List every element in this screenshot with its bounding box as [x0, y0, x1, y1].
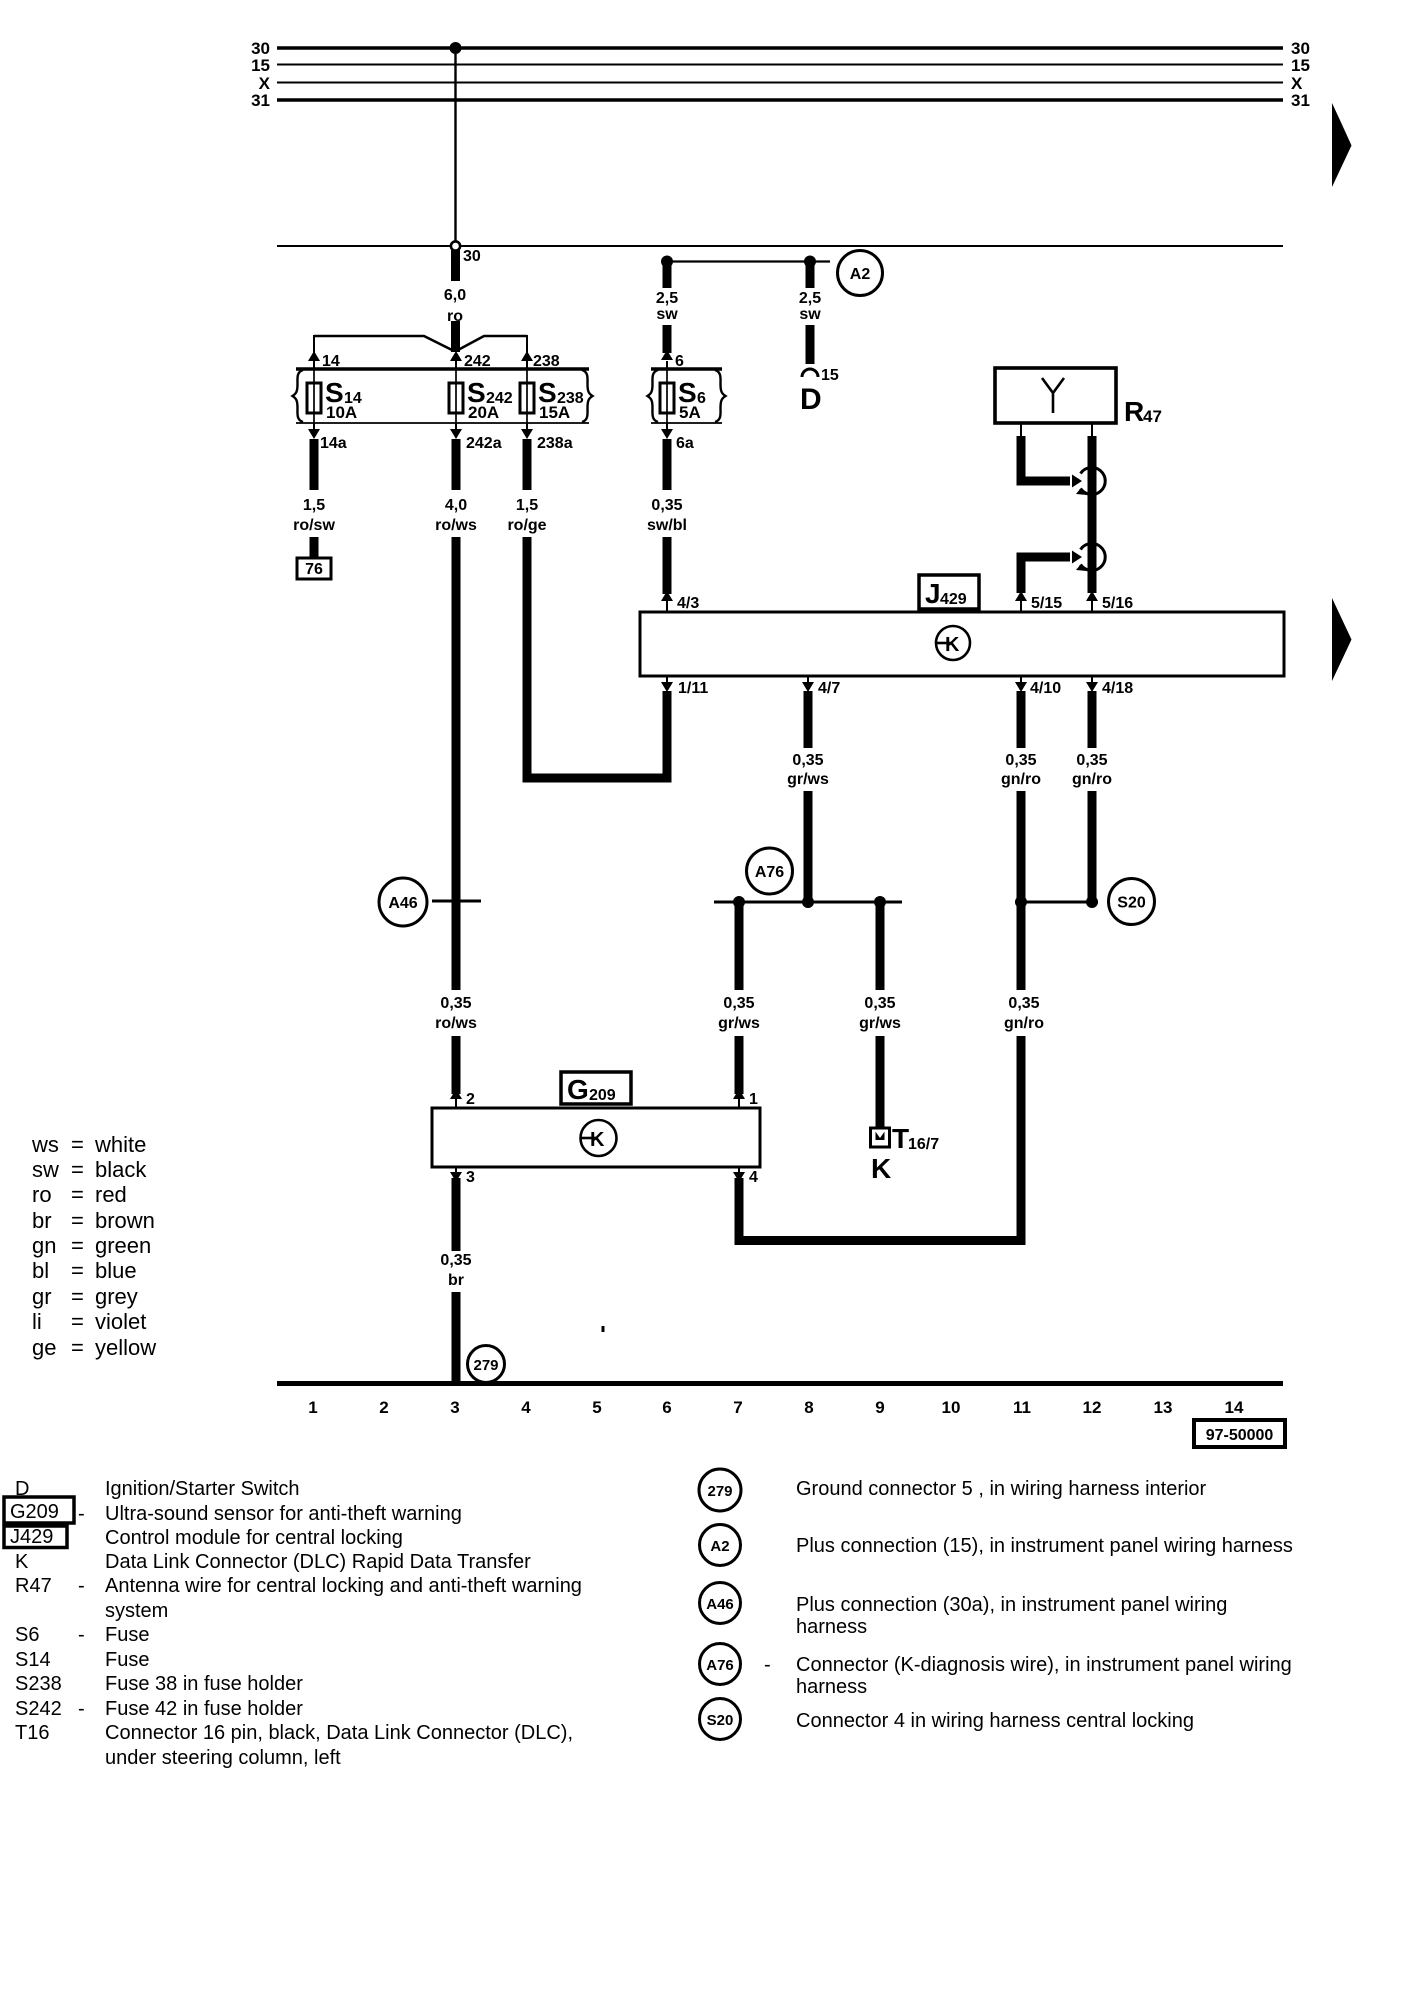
svg-text:31: 31: [251, 91, 270, 110]
svg-text:15A: 15A: [539, 403, 570, 422]
legend R47: [15, 1575, 582, 1622]
svg-text:-: -: [764, 1654, 771, 1676]
svg-text:6,0: 6,0: [444, 287, 466, 304]
svg-text:J429: J429: [10, 1526, 53, 1548]
svg-text:Fuse 38 in fuse holder: Fuse 38 in fuse holder: [105, 1673, 303, 1695]
svg-text:A76: A76: [706, 1657, 734, 1674]
svg-text:0,35: 0,35: [440, 995, 471, 1012]
svg-text:gr: gr: [32, 1284, 52, 1309]
pin 2 arrow G209: [450, 1089, 462, 1099]
svg-text:=: =: [71, 1132, 84, 1157]
svg-text:gr/ws: gr/ws: [787, 771, 829, 788]
pin 5/16 arrow: [1086, 591, 1098, 601]
svg-text:242a: 242a: [466, 435, 502, 452]
svg-text:30: 30: [463, 248, 481, 265]
svg-text:1,5: 1,5: [516, 497, 538, 514]
svg-text:2: 2: [379, 1398, 388, 1417]
wire gr/ws left lower: [735, 1036, 744, 1094]
svg-text:-: -: [78, 1624, 85, 1646]
svg-text:Fuse: Fuse: [105, 1624, 149, 1646]
wire gn/ro 4/18 lower: [1088, 791, 1097, 902]
svg-text:4,0: 4,0: [445, 497, 467, 514]
wire link 2,5 horizontal: [667, 260, 830, 262]
svg-text:S6: S6: [15, 1624, 39, 1646]
svg-text:ro/sw: ro/sw: [293, 517, 335, 534]
svg-text:ro/ws: ro/ws: [435, 1015, 477, 1032]
bus X: [277, 82, 1283, 84]
pin 4 arrow G209: [738, 1167, 740, 1172]
svg-text:4/3: 4/3: [677, 595, 699, 612]
svg-text:-: -: [78, 1698, 85, 1720]
connector A76 circle: [747, 848, 793, 894]
plus connection A46 circle: [379, 878, 427, 926]
S20 junction dot left: [1015, 896, 1027, 908]
legend S238: [15, 1673, 303, 1695]
svg-text:gn/ro: gn/ro: [1004, 1015, 1044, 1032]
wire gr/ws down from A76 left: [735, 902, 744, 990]
svg-text:A2: A2: [850, 266, 871, 283]
S20 node bar: [1015, 901, 1098, 904]
wire ro/ws long vertical: [452, 537, 461, 990]
G209 label box: [561, 1072, 631, 1104]
svg-text:=: =: [71, 1284, 84, 1309]
svg-text:0,35: 0,35: [1076, 752, 1107, 769]
svg-text:4: 4: [521, 1398, 531, 1417]
svg-text:Antenna wire for central locki: Antenna wire for central locking and ant…: [105, 1575, 582, 1597]
svg-text:Ultra-sound sensor for anti-th: Ultra-sound sensor for anti-theft warnin…: [105, 1503, 462, 1525]
svg-text:sw: sw: [799, 306, 821, 323]
wire gn/ro mid: [1017, 791, 1026, 990]
svg-text:9: 9: [875, 1398, 884, 1417]
wire gn/ro from 4/10 upper: [1017, 691, 1026, 748]
antenna symbol: [1042, 378, 1064, 413]
svg-text:-: -: [78, 1503, 85, 1525]
svg-text:Connector (K-diagnosis wire),: Connector (K-diagnosis wire), in instrum…: [796, 1654, 1292, 1676]
svg-text:0,35: 0,35: [792, 752, 823, 769]
svg-text:Plus connection (30a), in inst: Plus connection (30a), in instrument pan…: [796, 1594, 1227, 1616]
svg-text:2: 2: [466, 1091, 475, 1108]
svg-text:0,35: 0,35: [440, 1252, 471, 1269]
svg-text:S20: S20: [1117, 895, 1146, 912]
svg-text:G: G: [567, 1074, 589, 1105]
svg-text:br: br: [448, 1272, 464, 1289]
svg-text:=: =: [71, 1233, 84, 1258]
wire 1,5 ro/ge upper: [523, 439, 532, 490]
wire 1,5 ro/sw upper: [310, 439, 319, 490]
svg-text:1/11: 1/11: [678, 680, 708, 697]
svg-text:Fuse 42 in fuse holder: Fuse 42 in fuse holder: [105, 1698, 303, 1720]
twisted link lower elbow: [1021, 557, 1070, 593]
svg-text:ro: ro: [447, 308, 463, 325]
svg-text:Control module for central loc: Control module for central locking: [105, 1527, 403, 1549]
pin 238 arrow: [526, 335, 528, 353]
svg-text:D: D: [800, 383, 822, 416]
scan speck: [602, 1326, 605, 1332]
A76 junction dot left: [733, 896, 745, 908]
A46 tick across wire: [432, 900, 481, 903]
svg-text:black: black: [95, 1157, 147, 1182]
wire ro/ws lower: [452, 1036, 461, 1094]
svg-text:4: 4: [749, 1169, 758, 1186]
svg-text:12: 12: [1083, 1398, 1102, 1417]
svg-text:red: red: [95, 1182, 127, 1207]
legend circle 279: [699, 1469, 741, 1511]
pin 14a arrow: [313, 423, 315, 429]
connector T16/7 symbol: [871, 1128, 890, 1147]
junction dot right: [804, 256, 816, 268]
svg-text:31: 31: [1291, 91, 1310, 110]
pin 4/7 arrow: [807, 676, 809, 682]
svg-text:20A: 20A: [468, 403, 499, 422]
svg-text:system: system: [105, 1600, 168, 1622]
svg-text:sw/bl: sw/bl: [647, 517, 687, 534]
K symbol in J429: [936, 626, 970, 660]
pin 242a arrow: [455, 423, 457, 429]
legend circle A46: [700, 1583, 741, 1624]
svg-text:11: 11: [1013, 1398, 1031, 1417]
antenna R47 box: [995, 368, 1116, 423]
svg-text:S242: S242: [15, 1698, 62, 1720]
plus connection A2 circle: [838, 251, 883, 296]
wire sw/bl lower: [663, 537, 672, 594]
svg-text:K: K: [590, 1129, 605, 1151]
connector S20 circle: [1109, 879, 1155, 925]
svg-text:K: K: [15, 1551, 29, 1573]
svg-text:14a: 14a: [320, 435, 347, 452]
svg-text:Plus connection (15), in instr: Plus connection (15), in instrument pane…: [796, 1535, 1293, 1557]
svg-text:5/15: 5/15: [1031, 595, 1062, 612]
continuation arrow top right: [1332, 103, 1352, 187]
control module J429 box: [640, 612, 1284, 676]
fuse S242: [455, 369, 457, 423]
svg-text:209: 209: [589, 1087, 616, 1104]
svg-text:Fuse: Fuse: [105, 1649, 149, 1671]
wire split to fuses: [314, 336, 527, 350]
svg-text:3: 3: [466, 1169, 475, 1186]
colour code legend: [31, 1132, 156, 1360]
wire 2,5 sw right lower: [806, 325, 815, 364]
svg-text:Ignition/Starter Switch: Ignition/Starter Switch: [105, 1478, 300, 1500]
svg-text:6: 6: [675, 353, 684, 370]
svg-text:=: =: [71, 1258, 84, 1283]
svg-text:-: -: [78, 1575, 85, 1597]
svg-text:76: 76: [305, 561, 323, 578]
wire gr/ws lower to A76 node: [804, 791, 813, 902]
legend K: [15, 1551, 531, 1573]
pin 1/11 arrow: [666, 676, 668, 682]
svg-text:Ground connector 5 , in wirin: Ground connector 5 , in wiring harness i…: [796, 1478, 1207, 1500]
A76 node bar: [714, 901, 902, 904]
svg-text:S238: S238: [15, 1673, 62, 1695]
svg-text:Data Link Connector (DLC) Rapi: Data Link Connector (DLC) Rapid Data Tra…: [105, 1551, 531, 1573]
J429 label box: [919, 575, 979, 609]
svg-text:6: 6: [662, 1398, 671, 1417]
svg-text:br: br: [32, 1208, 52, 1233]
svg-text:3: 3: [450, 1398, 459, 1417]
svg-text:1,5: 1,5: [303, 497, 325, 514]
fuse S238: [526, 369, 528, 423]
svg-text:16/7: 16/7: [908, 1136, 939, 1153]
svg-text:li: li: [32, 1309, 42, 1334]
wire 4,0 ro/ws upper: [452, 439, 461, 490]
wire 2,5 sw left lower: [663, 325, 672, 353]
pin 238a arrow: [526, 423, 528, 429]
svg-text:=: =: [71, 1157, 84, 1182]
legend circle A76: [700, 1644, 741, 1685]
pin 4/18 arrow: [1091, 676, 1093, 682]
svg-text:4/10: 4/10: [1030, 680, 1061, 697]
legend J429 boxed: [4, 1526, 67, 1548]
svg-text:R47: R47: [15, 1575, 52, 1597]
svg-text:1: 1: [749, 1091, 758, 1108]
svg-text:10: 10: [942, 1398, 961, 1417]
pin 6 arrow: [661, 350, 673, 360]
svg-text:=: =: [71, 1182, 84, 1207]
svg-text:white: white: [94, 1132, 146, 1157]
svg-text:grey: grey: [95, 1284, 138, 1309]
wire gn/ro from 4/18 upper: [1088, 691, 1097, 748]
pin 5/15 arrow: [1015, 591, 1027, 601]
junction dot on bus 30: [450, 42, 462, 54]
svg-text:ro/ws: ro/ws: [435, 517, 477, 534]
antenna wire right vertical: [1088, 436, 1097, 593]
fuse holder box S14/S242/S238: [296, 367, 589, 370]
svg-text:sw: sw: [656, 306, 678, 323]
svg-text:sw: sw: [32, 1157, 59, 1182]
svg-text:A2: A2: [710, 1538, 729, 1555]
svg-text:=: =: [71, 1208, 84, 1233]
svg-text:ge: ge: [32, 1335, 56, 1360]
pin 3 arrow G209: [455, 1167, 457, 1172]
svg-text:J: J: [925, 578, 941, 609]
svg-text:gr/ws: gr/ws: [859, 1015, 901, 1032]
svg-text:green: green: [95, 1233, 151, 1258]
svg-text:0,35: 0,35: [723, 995, 754, 1012]
pin 242 arrow: [450, 351, 462, 361]
fuse holder box S6: [651, 367, 722, 370]
pin 6a arrow: [666, 423, 668, 429]
ultra-sound sensor G209 box: [432, 1108, 760, 1167]
svg-text:47: 47: [1143, 407, 1162, 426]
svg-text:429: 429: [940, 591, 967, 608]
wire gr/ws from 4/7 upper: [804, 691, 813, 748]
svg-text:blue: blue: [95, 1258, 137, 1283]
pin 1 arrow G209: [733, 1089, 745, 1099]
svg-text:2,5: 2,5: [656, 290, 678, 307]
K symbol in G209: [581, 1120, 617, 1156]
wire 0,35 sw/bl upper: [663, 439, 672, 490]
legend circle S20: [700, 1699, 741, 1740]
svg-text:bl: bl: [32, 1258, 49, 1283]
svg-text:5A: 5A: [679, 403, 701, 422]
svg-text:gn/ro: gn/ro: [1001, 771, 1041, 788]
svg-text:yellow: yellow: [95, 1335, 156, 1360]
svg-text:0,35: 0,35: [1008, 995, 1039, 1012]
svg-text:15: 15: [251, 56, 270, 75]
svg-text:S20: S20: [707, 1712, 734, 1729]
R47 left pin stub: [1020, 423, 1022, 436]
svg-text:8: 8: [804, 1398, 813, 1417]
svg-text:2,5: 2,5: [799, 290, 821, 307]
svg-text:ro/ge: ro/ge: [507, 517, 546, 534]
svg-text:under steering column, left: under steering column, left: [105, 1747, 341, 1769]
svg-text:R: R: [1124, 396, 1144, 427]
legend circle A2: [700, 1525, 741, 1566]
wire br upper: [452, 1178, 461, 1251]
svg-text:harness: harness: [796, 1616, 867, 1638]
wire gr/ws down from A76 right: [876, 902, 885, 990]
wire 2,5 sw left stub: [663, 258, 672, 288]
fuse S14: [313, 369, 315, 423]
fuse S6: [666, 369, 668, 423]
terminal box 76: [297, 558, 331, 579]
wire 6,0 ro: [451, 250, 460, 281]
svg-text:6a: 6a: [676, 435, 694, 452]
svg-text:A76: A76: [755, 864, 784, 881]
svg-text:harness: harness: [796, 1676, 867, 1698]
svg-text:K: K: [871, 1153, 891, 1184]
svg-text:ro: ro: [32, 1182, 52, 1207]
legend T16: [15, 1722, 573, 1769]
wire sw/bl pin arrow 4/3: [661, 591, 673, 601]
diagram number box 97-50000: [1194, 1420, 1285, 1447]
A76 junction dot right: [874, 896, 886, 908]
svg-text:13: 13: [1154, 1398, 1173, 1417]
svg-text:Connector 16 pin, black, Data: Connector 16 pin, black, Data Link Conne…: [105, 1722, 573, 1744]
svg-text:gn: gn: [32, 1233, 56, 1258]
svg-text:S14: S14: [15, 1649, 51, 1671]
wire from bus 30 down to node 30: [454, 48, 456, 243]
svg-text:4/18: 4/18: [1102, 680, 1133, 697]
svg-text:14: 14: [1225, 1398, 1244, 1417]
pin 4/10 arrow: [1020, 676, 1022, 682]
svg-text:gn/ro: gn/ro: [1072, 771, 1112, 788]
legend G209 boxed: [4, 1497, 74, 1523]
legend S6: [15, 1624, 149, 1646]
svg-text:15: 15: [821, 367, 839, 384]
svg-text:0,35: 0,35: [864, 995, 895, 1012]
svg-text:G209: G209: [10, 1501, 59, 1523]
pin 14 arrow: [313, 335, 315, 353]
svg-text:5/16: 5/16: [1102, 595, 1133, 612]
twist loop lower: [1081, 544, 1106, 571]
svg-text:A46: A46: [388, 895, 417, 912]
thin rail y=246: [277, 245, 1283, 247]
svg-text:=: =: [71, 1309, 84, 1334]
svg-text:gr/ws: gr/ws: [718, 1015, 760, 1032]
svg-text:K: K: [945, 634, 960, 656]
bus 31: [277, 98, 1283, 101]
svg-text:A46: A46: [706, 1596, 734, 1613]
wire gn/ro elbow to G209 pin 4: [739, 1036, 1021, 1241]
continuation arrow right of J429: [1332, 598, 1352, 681]
svg-text:4/7: 4/7: [818, 680, 840, 697]
antenna wire left elbow: [1021, 436, 1070, 481]
ground rail: [277, 1381, 1283, 1386]
svg-text:1: 1: [308, 1398, 317, 1417]
svg-text:7: 7: [733, 1398, 742, 1417]
svg-text:0,35: 0,35: [651, 497, 682, 514]
svg-text:238a: 238a: [537, 435, 573, 452]
wire 1,5 ro/sw lower: [310, 537, 319, 559]
wire 2,5 sw right stub: [806, 258, 815, 288]
svg-text:15: 15: [1291, 56, 1310, 75]
bus 30: [277, 46, 1283, 49]
wire ro/ge elbow to J429 pin 1/11: [527, 537, 667, 778]
svg-text:violet: violet: [95, 1309, 146, 1334]
svg-text:10A: 10A: [326, 403, 357, 422]
svg-text:brown: brown: [95, 1208, 155, 1233]
S20 junction dot right: [1086, 896, 1098, 908]
svg-text:T16: T16: [15, 1722, 49, 1744]
svg-text:0,35: 0,35: [1005, 752, 1036, 769]
legend S242: [15, 1698, 303, 1720]
connector dome at D pin 15: [802, 369, 818, 377]
node 30 open circle: [451, 241, 460, 250]
legend S14: [15, 1649, 149, 1671]
svg-text:ws: ws: [31, 1132, 59, 1157]
legend D: [15, 1478, 300, 1500]
svg-text:T: T: [892, 1123, 909, 1154]
svg-text:5: 5: [592, 1398, 601, 1417]
junction dot left: [661, 256, 673, 268]
svg-text:97-50000: 97-50000: [1206, 1427, 1274, 1444]
A76 junction dot mid: [802, 896, 814, 908]
wire gr/ws right lower: [876, 1036, 885, 1140]
svg-text:=: =: [71, 1335, 84, 1360]
bus 15: [277, 64, 1283, 66]
svg-text:279: 279: [707, 1483, 732, 1500]
ground connector 279 circle: [468, 1346, 505, 1383]
svg-text:Connector 4 in wiring harnes: Connector 4 in wiring harness central lo…: [796, 1710, 1194, 1732]
twist loop upper: [1081, 468, 1106, 495]
R47 right pin stub: [1091, 423, 1093, 436]
wire br lower: [452, 1292, 461, 1386]
svg-text:279: 279: [473, 1357, 498, 1374]
